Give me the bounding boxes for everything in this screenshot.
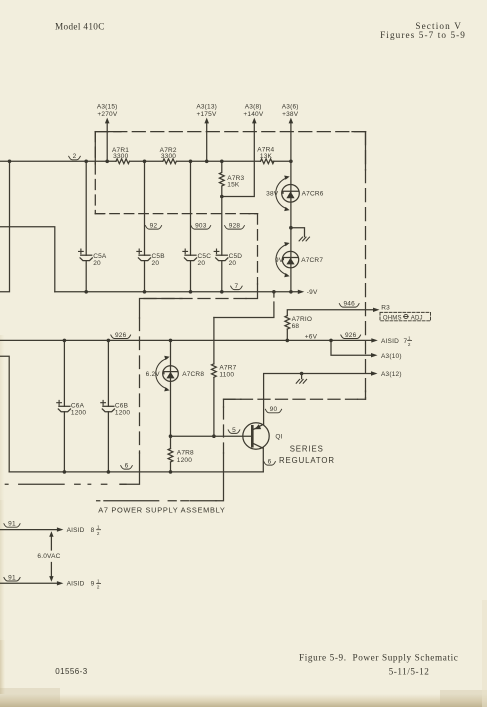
svg-text:91: 91 — [8, 521, 16, 528]
assembly boundary dashed vertical x223.5 — [216, 407, 224, 501]
wire A7R7 column top — [213, 318, 215, 364]
svg-text:A7 POWER SUPPLY ASSEMBLY: A7 POWER SUPPLY ASSEMBLY — [98, 505, 225, 514]
svg-text:1: 1 — [408, 336, 411, 341]
svg-text:Figure 5-9. Power Supply Sche: Figure 5-9. Power Supply Schematic — [299, 653, 459, 663]
svg-text:C5D: C5D — [229, 253, 243, 260]
capacitor C5A 20 — [79, 249, 107, 267]
svg-text:9: 9 — [91, 581, 95, 588]
resistor A7R4 13K — [257, 147, 274, 164]
svg-text:6.2V: 6.2V — [146, 371, 161, 378]
label A7 POWER SUPPLY ASSEMBLY — [98, 505, 225, 514]
wire C6A column — [63, 339, 67, 474]
svg-text:2: 2 — [408, 342, 411, 347]
svg-text:A7CR7: A7CR7 — [301, 257, 323, 264]
svg-text:7: 7 — [234, 283, 238, 290]
svg-text:20: 20 — [152, 260, 160, 267]
svg-text:3300: 3300 — [113, 153, 128, 160]
svg-text:AISID: AISID — [67, 581, 85, 588]
wire left stub to bottom bus — [0, 356, 9, 472]
node dots on -9V rail — [220, 290, 293, 294]
wire C5B column — [143, 160, 147, 294]
svg-text:Figures 5-7 to 5-9: Figures 5-7 to 5-9 — [380, 30, 466, 40]
wire A3(10) branch — [329, 339, 373, 356]
label SERIES REGULATOR — [279, 444, 335, 465]
label -9V — [307, 289, 318, 296]
terminal A3(13) +175V — [196, 103, 217, 163]
wire left off-page line y226.7 down to -9V rail — [0, 227, 55, 292]
svg-text:OHMS: OHMS — [383, 315, 402, 321]
svg-text:928: 928 — [229, 223, 241, 230]
terminal A3(8) +140V — [222, 103, 264, 196]
wire A7R10 bottom to +6V rail — [286, 329, 290, 342]
svg-text:1: 1 — [97, 525, 100, 530]
node 2 — [69, 153, 81, 160]
svg-text:946: 946 — [343, 301, 355, 308]
svg-text:A3(10): A3(10) — [381, 353, 402, 360]
zener diode A7CR8 6.2V — [146, 356, 205, 436]
svg-text:7: 7 — [404, 338, 408, 345]
svg-text:A3(6): A3(6) — [282, 103, 299, 110]
wire C5D column (A7R3 bottom to -9V rail) — [221, 197, 223, 292]
voltage indicator 6.0VAC — [37, 531, 60, 582]
assembly boundary dashed vertical x139.5 — [120, 318, 140, 484]
capacitor C5B 20 — [137, 249, 165, 267]
svg-text:8: 8 — [91, 527, 95, 534]
arrowhead A3(10) — [371, 353, 378, 357]
wire bottom bus (node 6 line) — [9, 471, 263, 473]
svg-text:A3(15): A3(15) — [97, 103, 118, 110]
svg-text:ADJ: ADJ — [411, 315, 423, 321]
svg-text:A7R7: A7R7 — [219, 365, 236, 372]
svg-text:QI: QI — [275, 433, 282, 440]
assembly boundary dashed vertical x95.3 — [94, 132, 96, 214]
svg-text:92: 92 — [150, 223, 158, 230]
node 5 — [228, 427, 240, 434]
wire C6B column — [107, 339, 111, 474]
svg-text:926: 926 — [345, 332, 357, 339]
wire A7CR8 column top (+6V rail to zener) — [169, 339, 173, 366]
terminal A1S1D 8 1/2 — [0, 525, 101, 536]
svg-text:1: 1 — [97, 578, 100, 583]
svg-text:+270V: +270V — [97, 111, 117, 118]
footer text — [55, 653, 458, 677]
svg-text:+140V: +140V — [243, 111, 263, 118]
svg-text:15K: 15K — [227, 182, 240, 189]
assembly boundary dashed line y399 — [224, 399, 358, 407]
svg-text:13K: 13K — [260, 153, 273, 160]
arrowhead 926 line to A1S1D — [371, 338, 378, 342]
svg-text:AISID: AISID — [381, 338, 399, 345]
svg-text:+6V: +6V — [305, 334, 318, 341]
svg-text:A7CR6: A7CR6 — [302, 191, 324, 198]
label +6V — [305, 334, 318, 341]
zener diode A7CR6 38V — [266, 176, 324, 212]
assembly boundary dashed line y484.3 — [5, 483, 126, 485]
assembly boundary dashed line y500.7 — [97, 500, 216, 502]
svg-text:2: 2 — [97, 585, 100, 590]
svg-text:1100: 1100 — [219, 372, 234, 379]
svg-text:-9V: -9V — [307, 289, 318, 296]
svg-text:903: 903 — [195, 223, 207, 230]
capacitor C6B 1200 — [101, 400, 131, 416]
wire A7R7 bottom to base line — [212, 378, 216, 439]
label A1S1D 7 1/2 — [381, 336, 412, 347]
resistor A7R2 3300 — [160, 147, 177, 164]
svg-text:1200: 1200 — [177, 457, 192, 464]
arrowhead R3 — [373, 308, 380, 312]
svg-text:A3(12): A3(12) — [381, 371, 402, 378]
zener diode A7CR7 9V — [275, 242, 323, 277]
wire node7 jog down to A7R7 feed — [214, 292, 274, 318]
node 7 — [231, 283, 243, 290]
svg-text:91: 91 — [8, 574, 16, 581]
arrowhead A3(12) — [371, 371, 378, 375]
svg-text:6.0VAC: 6.0VAC — [37, 553, 60, 560]
adjustment box OHMS ADJ — [380, 312, 431, 321]
header text — [55, 21, 466, 40]
node 6 right — [264, 459, 276, 466]
svg-text:SERIES: SERIES — [290, 444, 324, 453]
wire R3 line from A7R10 top — [287, 310, 375, 316]
node 90 — [265, 406, 281, 413]
assembly boundary dashed line y298.5 — [140, 299, 247, 319]
node 6 left — [121, 463, 133, 470]
wire left off-page stub to bus (node 2 feed) — [0, 161, 10, 291]
terminal A1S1D 9 1/2 — [0, 578, 101, 589]
svg-text:20: 20 — [198, 260, 206, 267]
svg-text:20: 20 — [229, 260, 237, 267]
wire Q1 base line — [169, 434, 252, 438]
svg-text:68: 68 — [292, 323, 300, 330]
transistor Q1 — [243, 423, 283, 472]
svg-text:90: 90 — [270, 406, 278, 413]
assembly boundary top dashed line — [95, 131, 365, 133]
wire C5A column — [84, 160, 88, 294]
svg-text:A3(8): A3(8) — [245, 103, 262, 110]
svg-text:C5B: C5B — [152, 253, 165, 260]
svg-text:38V: 38V — [266, 191, 279, 198]
ground on A3(12) line — [296, 372, 306, 384]
svg-text:C5C: C5C — [198, 253, 212, 260]
capacitor C5C 20 — [183, 249, 211, 267]
svg-text:A7R8: A7R8 — [177, 450, 194, 457]
resistor A7R8 1200 — [168, 449, 194, 464]
svg-text:6: 6 — [268, 459, 272, 466]
label A3(10) — [381, 353, 402, 360]
node 928 — [225, 223, 245, 230]
svg-text:AISID: AISID — [67, 527, 85, 534]
svg-text:A7CR8: A7CR8 — [182, 371, 204, 378]
assembly boundary right dashed vertical — [365, 132, 367, 400]
resistor A7R10 68 — [285, 316, 312, 331]
wire zener column +38V to -9V rail — [290, 161, 292, 291]
arrowhead -9V — [298, 290, 305, 294]
svg-text:A7RIO: A7RIO — [292, 316, 313, 323]
svg-text:1200: 1200 — [115, 410, 130, 417]
node 91 lower — [4, 574, 20, 581]
terminal A3(6) +38V — [282, 103, 299, 163]
wire A7R8 leads — [169, 436, 173, 474]
node junction dot bus/stub — [8, 160, 12, 164]
wire main +270V bus — [0, 160, 291, 162]
node 926 right — [341, 332, 361, 339]
assembly boundary lower-right corner — [358, 391, 366, 399]
svg-text:6: 6 — [125, 463, 129, 470]
svg-text:R3: R3 — [381, 304, 390, 311]
node 91 upper — [4, 521, 20, 528]
assembly boundary dashed vertical x257.5 — [246, 214, 258, 299]
svg-text:20: 20 — [93, 260, 101, 267]
svg-text:+38V: +38V — [282, 111, 299, 118]
svg-text:2: 2 — [97, 531, 100, 536]
svg-text:A3(13): A3(13) — [196, 103, 217, 110]
terminal A3(15) +270V — [97, 103, 118, 163]
resistor A7R3 15K with column — [219, 160, 244, 199]
resistor A7R1 3300 — [112, 147, 129, 164]
node 903 — [191, 223, 211, 230]
svg-text:C6A: C6A — [71, 403, 85, 410]
svg-text:C5A: C5A — [93, 253, 107, 260]
svg-text:Model 410C: Model 410C — [55, 22, 105, 32]
svg-text:REGULATOR: REGULATOR — [279, 456, 335, 465]
wire -9V rail (node 7 line) — [55, 291, 300, 293]
svg-text:5-11/5-12: 5-11/5-12 — [389, 667, 430, 677]
node 946 — [339, 301, 359, 308]
svg-text:5: 5 — [232, 427, 236, 434]
resistor A7R7 1100 — [212, 364, 237, 379]
svg-text:926: 926 — [115, 332, 127, 339]
svg-text:1200: 1200 — [71, 410, 86, 417]
capacitor C6A 1200 — [57, 400, 87, 416]
label A3(12) — [381, 371, 402, 378]
node 92 — [145, 223, 161, 230]
label R3 — [381, 304, 390, 311]
svg-text:2: 2 — [73, 153, 77, 160]
assembly boundary dashed line y213.6 — [95, 213, 257, 215]
svg-text:01556-3: 01556-3 — [55, 667, 88, 676]
svg-text:3300: 3300 — [161, 153, 176, 160]
ground at zener column — [289, 226, 309, 241]
svg-text:+175V: +175V — [197, 111, 217, 118]
wire +6V rail (926 line) — [0, 339, 373, 341]
wire C5C column — [189, 160, 193, 294]
capacitor C5D 20 — [214, 249, 242, 267]
node 926 left — [111, 332, 131, 339]
svg-text:C6B: C6B — [115, 403, 128, 410]
svg-text:9V: 9V — [275, 257, 284, 264]
wire A3(12) line with Q1 top column — [264, 374, 373, 424]
